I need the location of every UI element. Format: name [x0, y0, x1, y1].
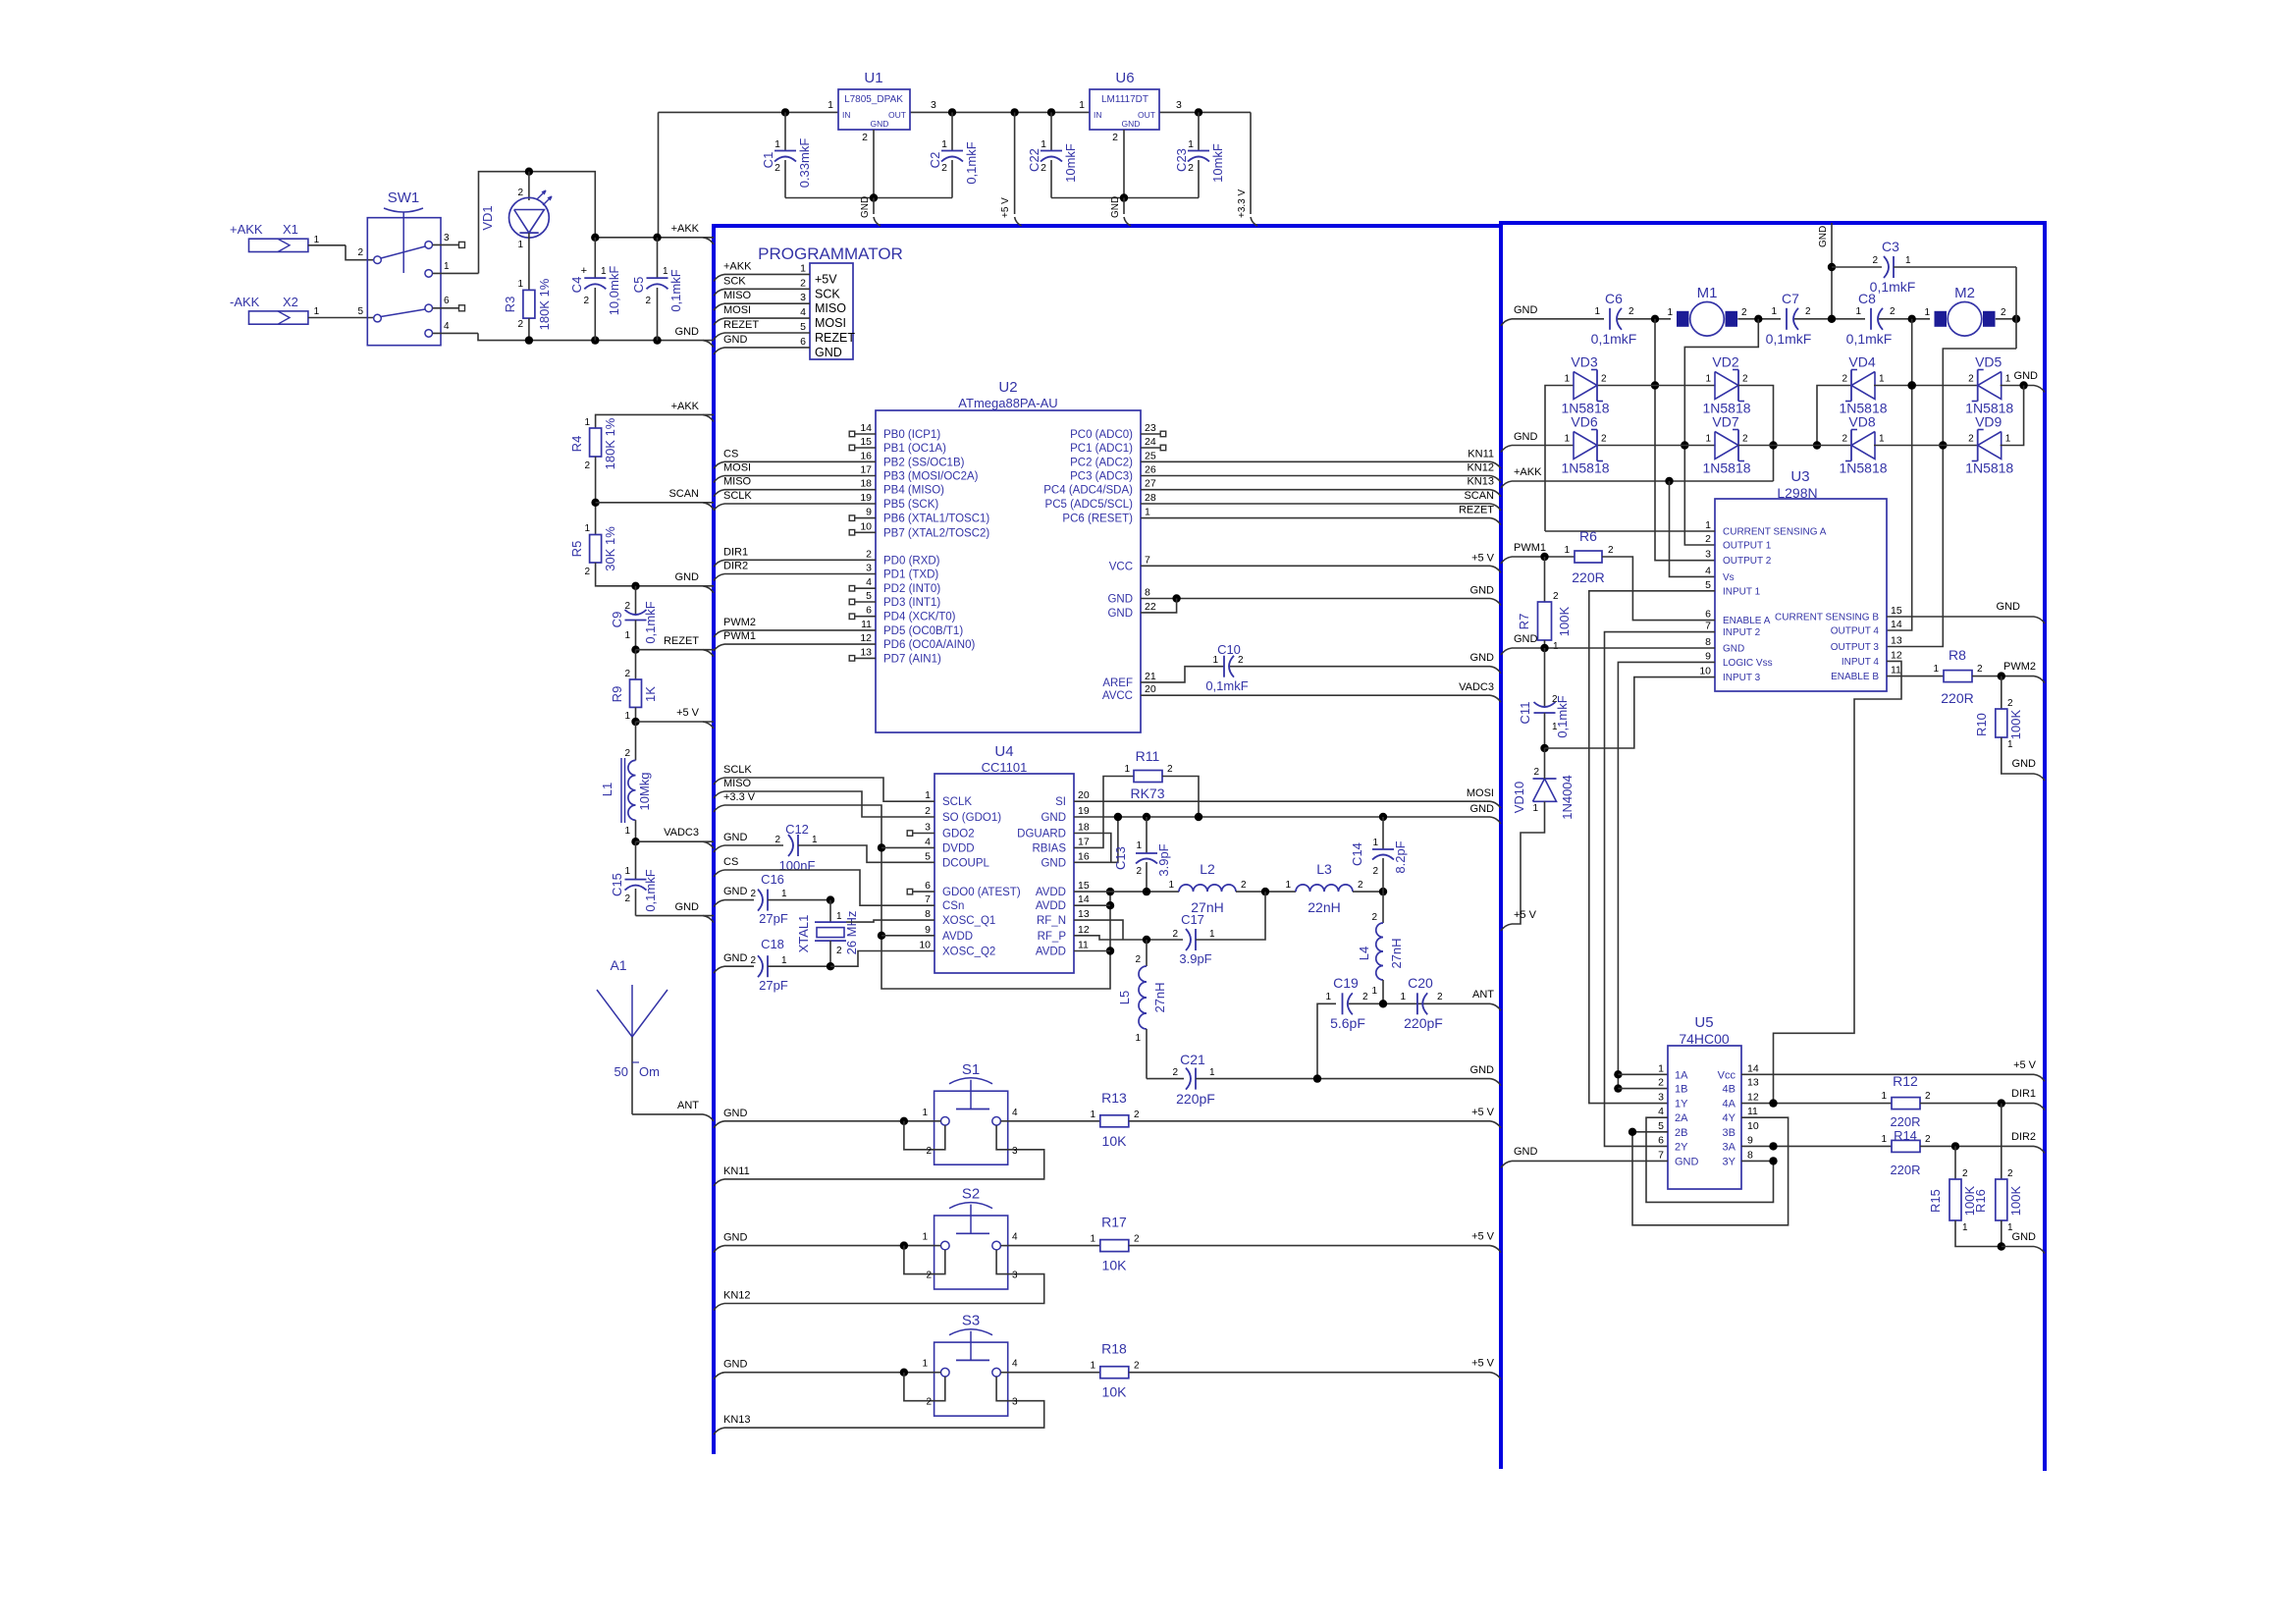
svg-text:1N4004: 1N4004: [1560, 775, 1575, 820]
svg-text:GND: GND: [1041, 857, 1066, 869]
svg-text:74HC00: 74HC00: [1679, 1031, 1730, 1047]
svg-text:L4: L4: [1357, 947, 1371, 960]
svg-text:GND: GND: [1514, 304, 1538, 316]
svg-text:9: 9: [1747, 1134, 1753, 1146]
svg-text:INPUT 3: INPUT 3: [1723, 673, 1761, 683]
svg-text:R6: R6: [1579, 528, 1597, 544]
svg-text:C17: C17: [1181, 912, 1204, 927]
svg-text:GND: GND: [1470, 803, 1495, 815]
svg-text:C6: C6: [1605, 291, 1623, 306]
svg-text:SI: SI: [1055, 796, 1066, 808]
svg-text:0,1mkF: 0,1mkF: [1205, 678, 1248, 693]
svg-text:0,1mkF: 0,1mkF: [1766, 331, 1812, 347]
svg-text:100K: 100K: [2008, 709, 2023, 739]
svg-text:ENABLE A: ENABLE A: [1723, 616, 1771, 626]
svg-text:6: 6: [1705, 609, 1711, 621]
svg-text:6: 6: [800, 336, 806, 348]
svg-text:1: 1: [1372, 838, 1378, 848]
svg-text:GND: GND: [1470, 585, 1495, 597]
svg-text:3: 3: [1176, 99, 1182, 111]
svg-text:2: 2: [1134, 1110, 1140, 1120]
svg-text:18: 18: [860, 478, 872, 490]
svg-text:3: 3: [1705, 549, 1711, 561]
svg-text:17: 17: [1078, 836, 1090, 847]
svg-text:2: 2: [1629, 306, 1634, 317]
svg-text:15: 15: [1078, 880, 1090, 892]
svg-text:GND: GND: [1514, 431, 1538, 443]
svg-text:DIR1: DIR1: [723, 546, 748, 558]
svg-text:0,1mkF: 0,1mkF: [643, 869, 658, 911]
svg-text:+5 V: +5 V: [1000, 197, 1011, 218]
svg-text:CSn: CSn: [942, 900, 964, 912]
svg-text:3: 3: [866, 563, 872, 574]
svg-text:2: 2: [1601, 374, 1607, 385]
svg-text:2: 2: [1134, 1234, 1140, 1245]
svg-text:AREF: AREF: [1102, 677, 1133, 689]
svg-text:C19: C19: [1333, 975, 1359, 991]
svg-text:8.2pF: 8.2pF: [1393, 840, 1408, 873]
svg-text:CURRENT SENSING A: CURRENT SENSING A: [1723, 527, 1827, 538]
svg-text:2: 2: [1372, 866, 1378, 877]
svg-text:1: 1: [1371, 986, 1377, 997]
svg-text:0,1mkF: 0,1mkF: [1846, 331, 1893, 347]
svg-text:6: 6: [866, 605, 872, 617]
svg-text:+: +: [581, 265, 587, 277]
svg-text:1: 1: [922, 1359, 928, 1370]
svg-text:4: 4: [800, 306, 806, 318]
svg-text:+AKK: +AKK: [671, 223, 700, 235]
svg-text:IN: IN: [1094, 110, 1102, 120]
svg-text:R17: R17: [1101, 1215, 1127, 1230]
svg-text:C1: C1: [761, 152, 775, 169]
svg-text:10mkF: 10mkF: [1063, 143, 1078, 183]
svg-text:2: 2: [925, 805, 931, 817]
svg-text:GND: GND: [1514, 633, 1538, 645]
svg-text:VD7: VD7: [1712, 414, 1738, 430]
svg-text:L1: L1: [600, 783, 614, 796]
svg-text:4: 4: [1012, 1359, 1018, 1370]
svg-text:GND: GND: [815, 346, 842, 359]
svg-text:AVDD: AVDD: [1036, 887, 1066, 898]
svg-text:2: 2: [1742, 374, 1748, 385]
svg-text:18: 18: [1078, 822, 1090, 834]
svg-text:R7: R7: [1517, 614, 1531, 630]
svg-text:1: 1: [836, 911, 842, 922]
svg-text:2: 2: [1553, 591, 1559, 602]
svg-text:27pF: 27pF: [759, 911, 788, 926]
svg-text:2: 2: [1742, 434, 1748, 445]
svg-text:2: 2: [862, 132, 868, 143]
svg-text:PB3 (MOSI/OC2A): PB3 (MOSI/OC2A): [883, 471, 979, 483]
svg-text:PD5 (OC0B/T1): PD5 (OC0B/T1): [883, 625, 963, 637]
svg-text:VD1: VD1: [480, 205, 495, 230]
svg-text:+5 V: +5 V: [1471, 1107, 1495, 1118]
svg-text:27: 27: [1145, 478, 1156, 490]
svg-text:A1: A1: [610, 957, 626, 973]
svg-text:SCAN: SCAN: [668, 488, 699, 500]
svg-text:S2: S2: [962, 1186, 980, 1203]
svg-text:Vcc: Vcc: [1718, 1069, 1736, 1081]
svg-text:3: 3: [1012, 1146, 1018, 1157]
svg-text:50: 50: [614, 1064, 628, 1079]
svg-text:GND: GND: [675, 901, 700, 913]
svg-text:R16: R16: [1973, 1189, 1988, 1213]
svg-text:PD7 (AIN1): PD7 (AIN1): [883, 653, 941, 665]
svg-text:+3.3 V: +3.3 V: [723, 791, 756, 803]
svg-text:1N5818: 1N5818: [1965, 460, 2013, 476]
svg-text:6: 6: [1658, 1134, 1664, 1146]
svg-text:10,0mkF: 10,0mkF: [607, 266, 621, 316]
svg-text:5.6pF: 5.6pF: [1330, 1015, 1365, 1031]
svg-text:10: 10: [919, 940, 931, 951]
svg-text:9: 9: [925, 924, 931, 936]
svg-text:VD5: VD5: [1975, 354, 2002, 370]
svg-text:GDO0 (ATEST): GDO0 (ATEST): [942, 887, 1021, 898]
svg-text:2: 2: [1968, 434, 1974, 445]
svg-text:+5 V: +5 V: [2013, 1059, 2037, 1071]
svg-text:+5V: +5V: [815, 272, 837, 286]
svg-text:1: 1: [1209, 1067, 1215, 1078]
svg-text:L3: L3: [1316, 861, 1332, 877]
svg-text:1: 1: [1667, 307, 1673, 318]
svg-text:VD3: VD3: [1571, 354, 1597, 370]
svg-text:4: 4: [925, 836, 931, 847]
svg-text:8: 8: [1705, 636, 1711, 648]
svg-text:IN: IN: [842, 110, 851, 120]
svg-text:PB0 (ICP1): PB0 (ICP1): [883, 429, 940, 441]
svg-text:RF_N: RF_N: [1037, 915, 1066, 927]
svg-text:5: 5: [800, 321, 806, 333]
svg-text:1: 1: [624, 630, 630, 641]
svg-text:2: 2: [800, 277, 806, 289]
svg-text:GND: GND: [1818, 226, 1829, 247]
svg-text:1: 1: [1090, 1361, 1095, 1372]
svg-text:GND: GND: [1470, 652, 1495, 664]
svg-text:VD2: VD2: [1712, 354, 1738, 370]
svg-text:1: 1: [1188, 138, 1194, 150]
svg-text:MOSI: MOSI: [723, 462, 751, 474]
svg-text:X2: X2: [283, 295, 298, 309]
svg-text:PWM1: PWM1: [1514, 542, 1546, 554]
svg-text:14: 14: [1891, 619, 1902, 630]
svg-text:1: 1: [828, 99, 833, 111]
svg-text:R15: R15: [1928, 1189, 1943, 1213]
svg-text:10: 10: [860, 520, 872, 532]
svg-text:1: 1: [1552, 722, 1558, 732]
svg-text:220pF: 220pF: [1176, 1091, 1215, 1107]
svg-text:GND: GND: [1723, 644, 1744, 655]
svg-text:2: 2: [1241, 880, 1247, 891]
svg-text:10K: 10K: [1102, 1384, 1128, 1400]
svg-text:1N5818: 1N5818: [1561, 460, 1609, 476]
svg-text:1: 1: [1924, 307, 1930, 318]
svg-text:KN12: KN12: [723, 1290, 751, 1302]
svg-text:2: 2: [2001, 307, 2006, 318]
svg-text:1: 1: [781, 955, 787, 966]
svg-text:PD1 (TXD): PD1 (TXD): [883, 569, 938, 581]
svg-text:3Y: 3Y: [1723, 1156, 1736, 1167]
svg-text:LOGIC Vss: LOGIC Vss: [1723, 658, 1773, 669]
svg-text:1: 1: [1564, 434, 1570, 445]
svg-text:22nH: 22nH: [1308, 899, 1340, 915]
svg-text:S3: S3: [962, 1313, 980, 1329]
svg-text:PC4 (ADC4/SDA): PC4 (ADC4/SDA): [1043, 485, 1133, 497]
svg-text:R10: R10: [1974, 713, 1989, 736]
svg-text:1: 1: [812, 835, 818, 845]
svg-text:GND: GND: [1107, 608, 1133, 620]
svg-text:7: 7: [1145, 554, 1150, 566]
svg-text:VD4: VD4: [1848, 354, 1875, 370]
svg-text:OUT: OUT: [888, 110, 906, 120]
svg-text:2: 2: [517, 188, 523, 198]
svg-text:+5 V: +5 V: [1514, 909, 1537, 921]
svg-text:2: 2: [357, 247, 363, 258]
svg-text:1: 1: [1879, 434, 1885, 445]
svg-text:1: 1: [1962, 1222, 1968, 1233]
svg-text:KN11: KN11: [723, 1165, 750, 1177]
svg-text:1: 1: [601, 266, 607, 277]
svg-text:100K: 100K: [2008, 1185, 2023, 1216]
svg-text:12: 12: [1747, 1092, 1759, 1104]
svg-text:2: 2: [624, 893, 630, 904]
svg-text:1: 1: [1079, 99, 1085, 111]
svg-text:4: 4: [1012, 1108, 1018, 1118]
svg-text:2: 2: [1658, 1077, 1664, 1089]
svg-text:GND: GND: [1107, 594, 1133, 606]
svg-text:U4: U4: [994, 743, 1013, 760]
svg-text:U2: U2: [998, 379, 1017, 396]
svg-text:15: 15: [1891, 605, 1902, 617]
svg-text:1N5818: 1N5818: [1839, 460, 1887, 476]
svg-text:1: 1: [1553, 641, 1559, 652]
svg-text:XOSC_Q1: XOSC_Q1: [942, 915, 995, 927]
svg-text:R11: R11: [1136, 748, 1160, 764]
svg-text:2: 2: [750, 955, 756, 966]
svg-text:3: 3: [1012, 1271, 1018, 1281]
svg-text:GND: GND: [860, 196, 871, 218]
svg-text:GND: GND: [723, 952, 748, 964]
svg-text:PWM2: PWM2: [723, 617, 756, 628]
svg-text:30K 1%: 30K 1%: [603, 526, 617, 571]
svg-text:10mkF: 10mkF: [1210, 143, 1225, 183]
svg-text:14: 14: [1078, 893, 1090, 905]
svg-text:M2: M2: [1954, 285, 1975, 301]
svg-text:0,1mkF: 0,1mkF: [964, 141, 979, 184]
svg-text:2: 2: [1962, 1168, 1968, 1179]
svg-text:2: 2: [1805, 306, 1811, 317]
svg-text:11: 11: [1078, 940, 1089, 951]
svg-text:26: 26: [1145, 464, 1156, 476]
svg-text:4: 4: [1658, 1106, 1664, 1117]
svg-text:GND: GND: [723, 1232, 748, 1244]
svg-text:1: 1: [1532, 803, 1538, 814]
svg-text:1: 1: [1168, 880, 1174, 891]
svg-text:CS: CS: [723, 856, 738, 868]
svg-text:1: 1: [922, 1108, 928, 1118]
svg-text:C13: C13: [1113, 846, 1128, 870]
svg-text:R14: R14: [1894, 1128, 1917, 1143]
svg-text:1N5818: 1N5818: [1702, 460, 1750, 476]
svg-text:13: 13: [860, 646, 872, 658]
svg-text:GND: GND: [1122, 119, 1141, 129]
svg-text:C14: C14: [1350, 842, 1364, 866]
svg-text:C4: C4: [569, 277, 584, 294]
svg-text:19: 19: [860, 492, 872, 504]
svg-text:RF_P: RF_P: [1038, 931, 1067, 943]
svg-text:R13: R13: [1101, 1090, 1127, 1106]
svg-text:3B: 3B: [1723, 1127, 1735, 1139]
svg-text:220R: 220R: [1572, 569, 1604, 585]
svg-text:1: 1: [584, 523, 590, 534]
svg-text:GND: GND: [675, 571, 700, 583]
svg-text:PB6 (XTAL1/TOSC1): PB6 (XTAL1/TOSC1): [883, 514, 989, 525]
svg-text:C7: C7: [1782, 291, 1799, 306]
svg-text:220pF: 220pF: [1404, 1015, 1443, 1031]
svg-text:1: 1: [1135, 1033, 1141, 1044]
svg-text:4A: 4A: [1723, 1099, 1736, 1110]
svg-text:PD2 (INT0): PD2 (INT0): [883, 583, 940, 595]
svg-text:28: 28: [1145, 492, 1156, 504]
svg-text:2: 2: [1872, 255, 1878, 266]
svg-text:27nH: 27nH: [1152, 982, 1167, 1012]
svg-text:11: 11: [1747, 1106, 1758, 1117]
svg-text:VD10: VD10: [1512, 782, 1526, 814]
svg-text:KN13: KN13: [723, 1414, 751, 1426]
svg-text:SCLK: SCLK: [942, 796, 972, 808]
svg-text:2: 2: [584, 567, 590, 577]
svg-text:OUTPUT 1: OUTPUT 1: [1723, 541, 1772, 552]
svg-text:2: 2: [517, 319, 523, 330]
svg-text:+AKK: +AKK: [723, 260, 752, 272]
svg-text:AVDD: AVDD: [942, 931, 973, 943]
svg-text:2Y: 2Y: [1675, 1141, 1688, 1153]
svg-text:1: 1: [1879, 374, 1885, 385]
svg-text:1: 1: [584, 417, 590, 428]
svg-text:12: 12: [1891, 649, 1902, 661]
svg-text:1: 1: [444, 261, 450, 272]
svg-text:PB5 (SCK): PB5 (SCK): [883, 499, 938, 511]
svg-text:INPUT 4: INPUT 4: [1842, 657, 1880, 668]
svg-text:RK73: RK73: [1130, 785, 1164, 801]
svg-text:220R: 220R: [1941, 690, 1973, 706]
svg-text:3: 3: [1012, 1397, 1018, 1408]
svg-text:2: 2: [866, 548, 872, 560]
svg-text:8: 8: [1747, 1149, 1753, 1161]
svg-text:OUTPUT 3: OUTPUT 3: [1831, 642, 1880, 653]
svg-text:4: 4: [444, 321, 450, 332]
svg-text:+5 V: +5 V: [1471, 1231, 1495, 1243]
svg-text:OUTPUT 4: OUTPUT 4: [1831, 626, 1880, 637]
svg-text:R12: R12: [1893, 1073, 1918, 1089]
svg-text:+3.3 V: +3.3 V: [1237, 189, 1248, 218]
svg-text:2B: 2B: [1675, 1127, 1687, 1139]
svg-text:DGUARD: DGUARD: [1017, 829, 1066, 840]
svg-text:1: 1: [1905, 255, 1911, 266]
svg-text:1: 1: [1881, 1134, 1887, 1145]
svg-text:5: 5: [357, 306, 363, 317]
svg-text:PD6 (OC0A/AIN0): PD6 (OC0A/AIN0): [883, 639, 975, 651]
svg-text:1: 1: [1855, 306, 1861, 317]
svg-text:11: 11: [1891, 665, 1901, 677]
svg-text:3: 3: [1658, 1092, 1664, 1104]
svg-text:SCK: SCK: [815, 287, 840, 300]
svg-text:GND: GND: [1041, 812, 1066, 824]
svg-text:2: 2: [1167, 764, 1173, 775]
svg-text:C5: C5: [631, 277, 646, 294]
svg-text:U5: U5: [1694, 1014, 1713, 1031]
svg-text:XTAL1: XTAL1: [796, 915, 811, 953]
svg-text:10Mkg: 10Mkg: [637, 772, 652, 810]
svg-text:MISO: MISO: [723, 476, 752, 488]
svg-text:VD8: VD8: [1848, 414, 1875, 430]
svg-text:GND: GND: [1675, 1156, 1699, 1167]
svg-text:180K 1%: 180K 1%: [603, 417, 617, 469]
svg-text:MISO: MISO: [723, 778, 752, 789]
svg-text:C2: C2: [928, 152, 942, 169]
svg-text:GDO2: GDO2: [942, 829, 975, 840]
svg-text:2: 2: [1842, 374, 1847, 385]
svg-text:Om: Om: [639, 1064, 660, 1079]
svg-text:1: 1: [781, 889, 787, 899]
svg-text:1: 1: [624, 826, 630, 837]
svg-text:1: 1: [774, 138, 780, 150]
svg-text:2: 2: [2007, 1168, 2013, 1179]
svg-text:2: 2: [774, 835, 780, 845]
svg-text:2: 2: [584, 460, 590, 471]
svg-text:21: 21: [1145, 671, 1156, 682]
svg-text:C9: C9: [610, 612, 624, 628]
svg-text:2: 2: [645, 296, 651, 306]
svg-text:6: 6: [925, 880, 931, 892]
svg-text:220R: 220R: [1890, 1163, 1920, 1177]
svg-text:PC5 (ADC5/SCL): PC5 (ADC5/SCL): [1045, 499, 1134, 511]
svg-text:2: 2: [1601, 434, 1607, 445]
svg-text:1: 1: [941, 138, 947, 150]
svg-text:PB2 (SS/OC1B): PB2 (SS/OC1B): [883, 457, 965, 468]
svg-text:PWM2: PWM2: [2003, 661, 2036, 673]
svg-text:PWM1: PWM1: [723, 630, 756, 642]
svg-text:SCLK: SCLK: [723, 764, 752, 776]
svg-text:REZET: REZET: [664, 635, 699, 647]
svg-text:22: 22: [1145, 601, 1156, 613]
svg-text:1: 1: [1209, 929, 1215, 940]
svg-text:3: 3: [800, 292, 806, 303]
svg-text:1: 1: [314, 235, 320, 245]
svg-text:U3: U3: [1790, 468, 1809, 485]
svg-text:0.33mkF: 0.33mkF: [797, 138, 812, 189]
svg-text:GND: GND: [723, 1108, 748, 1119]
svg-text:1: 1: [1124, 764, 1130, 775]
svg-text:DVDD: DVDD: [942, 842, 975, 854]
svg-text:GND: GND: [1997, 601, 2021, 613]
svg-text:2: 2: [2007, 698, 2013, 709]
svg-text:1: 1: [1705, 374, 1711, 385]
svg-text:REZET: REZET: [1459, 505, 1494, 516]
svg-text:KN13: KN13: [1467, 476, 1494, 488]
svg-text:2: 2: [1705, 533, 1711, 545]
svg-text:1: 1: [1090, 1234, 1095, 1245]
svg-text:25: 25: [1145, 450, 1156, 461]
svg-text:20: 20: [1145, 683, 1156, 695]
svg-text:GND: GND: [1470, 1064, 1495, 1076]
svg-text:SO (GDO1): SO (GDO1): [942, 812, 1001, 824]
svg-text:PC1 (ADC1): PC1 (ADC1): [1070, 443, 1133, 455]
svg-text:4: 4: [1705, 565, 1711, 576]
svg-text:13: 13: [1891, 635, 1902, 647]
svg-text:0,1mkF: 0,1mkF: [643, 601, 658, 643]
svg-text:2: 2: [1172, 929, 1178, 940]
svg-text:2: 2: [1552, 694, 1558, 705]
